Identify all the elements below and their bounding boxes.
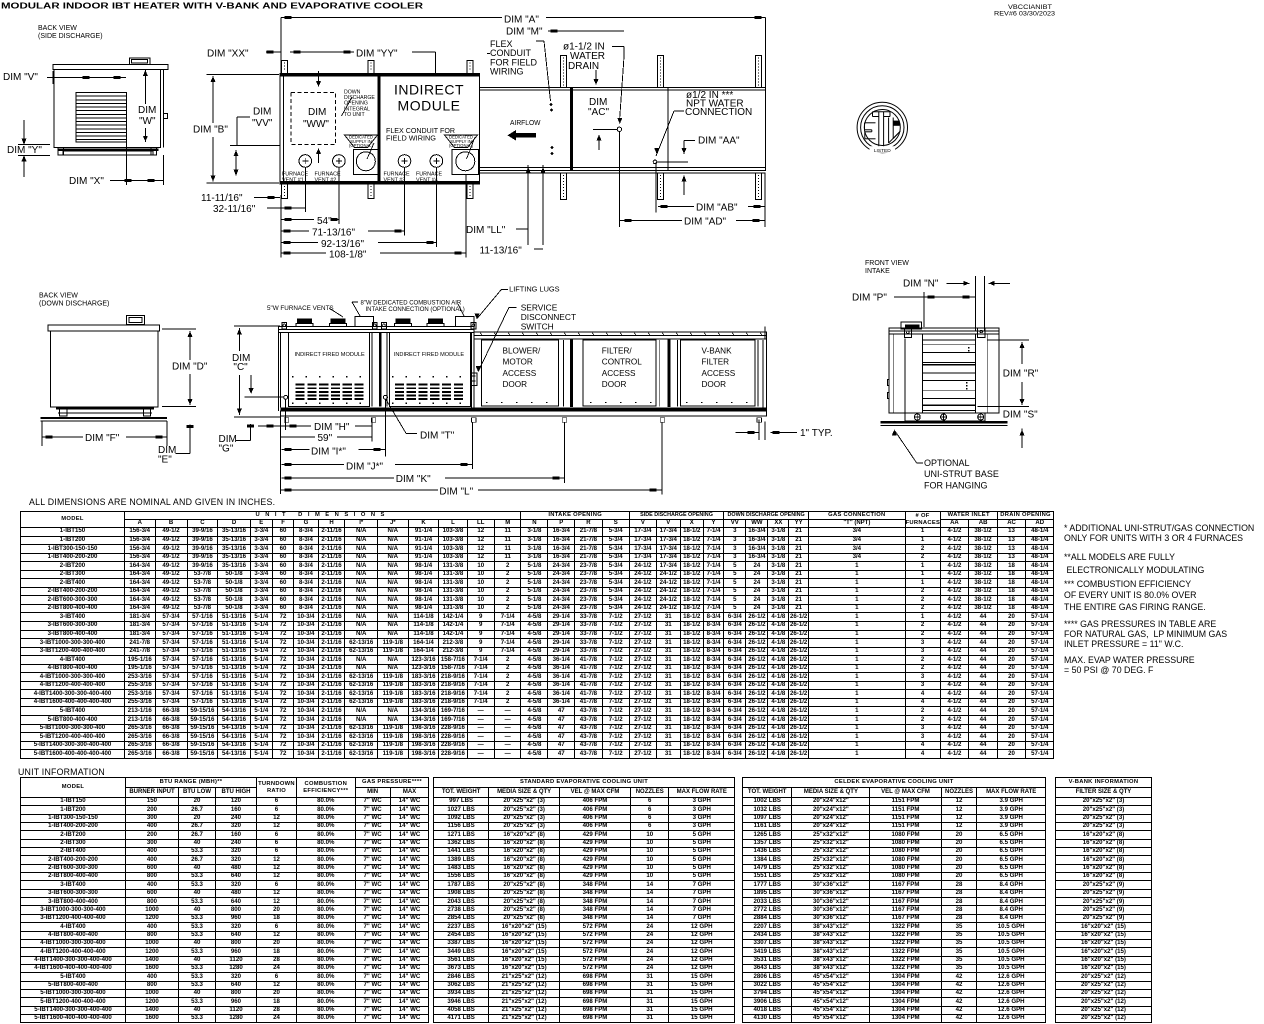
D4 module outer walls <box>277 327 279 411</box>
D4 right sections dots <box>486 402 487 403</box>
svg-text:DIM "F": DIM "F" <box>85 433 120 444</box>
svg-text:INDIRECT FIRED MODULE: INDIRECT FIRED MODULE <box>295 352 365 358</box>
svg-text:SWITCH: SWITCH <box>521 322 554 332</box>
note: all dimensions nominal <box>29 497 275 507</box>
svg-text:"E": "E" <box>158 455 172 466</box>
svg-text:BLOWER/: BLOWER/ <box>503 347 541 356</box>
svg-text:"C": "C" <box>233 362 248 373</box>
svg-text:DIM "M": DIM "M" <box>506 27 543 38</box>
D4 bolts at base left <box>284 395 288 399</box>
D5 cabinet outline <box>889 334 999 413</box>
svg-text:INDIRECT FIRED MODULE: INDIRECT FIRED MODULE <box>394 352 464 358</box>
svg-text:DIM "X": DIM "X" <box>69 176 104 187</box>
D1 cabinet body <box>54 69 161 147</box>
notes right of unit dimensions table <box>1064 524 1254 544</box>
svg-text:DRAIN: DRAIN <box>568 61 599 72</box>
svg-text:DISCONNECT: DISCONNECT <box>521 312 576 322</box>
D2 supply squares with circles <box>353 150 378 175</box>
svg-text:VENT #4: VENT #4 <box>416 177 438 183</box>
D3 roof band <box>48 325 159 331</box>
D5 filter stack <box>923 340 976 411</box>
unit information title <box>18 767 105 777</box>
D1 roof band <box>53 65 168 70</box>
svg-text:DIM: DIM <box>138 105 156 116</box>
svg-text:DIM "B": DIM "B" <box>193 125 228 136</box>
svg-text:BACK VIEW: BACK VIEW <box>39 293 78 300</box>
D2 right sections outline <box>479 87 765 170</box>
svg-text:FRONT VIEW: FRONT VIEW <box>865 260 909 267</box>
D4 module 1 door <box>289 333 370 407</box>
svg-text:DIM "N": DIM "N" <box>903 279 939 290</box>
D5 uni-strut base plate <box>880 421 1007 423</box>
D4 combustion air intake boxes <box>355 317 374 327</box>
svg-text:8"W DEDICATED COMBUSTION AIR: 8"W DEDICATED COMBUSTION AIR <box>361 301 462 307</box>
svg-text:59": 59" <box>318 433 333 444</box>
svg-text:DIM "A": DIM "A" <box>504 15 539 26</box>
svg-text:V-BANK: V-BANK <box>702 347 733 356</box>
svg-text:ACCESS: ACCESS <box>602 369 636 378</box>
svg-text:DIM "S": DIM "S" <box>1003 410 1038 421</box>
svg-text:FIELD WIRING: FIELD WIRING <box>386 134 436 143</box>
svg-text:WIRING: WIRING <box>490 67 524 77</box>
unit information tables <box>20 777 429 1023</box>
svg-text:ACCESS: ACCESS <box>503 369 537 378</box>
svg-text:11-11/16": 11-11/16" <box>201 193 243 204</box>
svg-text:54": 54" <box>317 216 332 227</box>
D5 roof band <box>889 328 999 334</box>
svg-text:BACK VIEW: BACK VIEW <box>38 25 77 32</box>
D4 bottom bar and base <box>281 407 767 411</box>
svg-text:DIM "I*": DIM "I*" <box>311 447 346 458</box>
svg-text:REV#6 03/30/2023: REV#6 03/30/2023 <box>994 12 1056 18</box>
svg-text:"VV": "VV" <box>252 118 273 129</box>
svg-text:"AC": "AC" <box>588 107 609 118</box>
D2 unistrut channels top <box>282 60 288 73</box>
svg-text:DIM "D": DIM "D" <box>172 362 208 373</box>
svg-text:DIM "XX": DIM "XX" <box>207 49 249 60</box>
D2 unistrut channels bottom <box>282 184 288 199</box>
svg-text:DIM "AA": DIM "AA" <box>698 136 740 147</box>
svg-text:DIM: DIM <box>308 107 326 118</box>
D1 vent on roof <box>129 58 150 64</box>
svg-text:DIM "YY": DIM "YY" <box>356 49 398 60</box>
svg-text:"WW": "WW" <box>303 119 329 130</box>
svg-text:UNI-STRUT BASE: UNI-STRUT BASE <box>924 469 999 479</box>
D2 down discharge dashed opening <box>291 93 336 145</box>
D4 dim C inner stub to bolt line <box>250 375 252 392</box>
D4 roof vents <box>297 319 312 324</box>
svg-text:INTAKE: INTAKE <box>865 268 890 275</box>
svg-text:"G": "G" <box>219 444 234 455</box>
svg-text:INDIRECT: INDIRECT <box>394 82 464 98</box>
D4 right sections roof band <box>474 332 766 339</box>
svg-text:DIM "Y": DIM "Y" <box>7 145 42 156</box>
svg-text:DIM "T": DIM "T" <box>420 431 455 442</box>
svg-text:71-13/16": 71-13/16" <box>312 228 355 239</box>
svg-text:(OPTIONAL): (OPTIONAL) <box>449 143 474 148</box>
D4 v-bank section <box>681 340 756 406</box>
D4 blower section <box>482 340 559 406</box>
D5 corner lugs <box>904 329 911 337</box>
svg-text:32-11/16": 32-11/16" <box>213 204 256 215</box>
D5 feet band <box>905 413 985 421</box>
svg-text:OPTIONAL: OPTIONAL <box>924 458 970 468</box>
svg-text:92-13/16": 92-13/16" <box>321 239 364 250</box>
svg-text:VBCCIANIBT: VBCCIANIBT <box>1008 5 1052 11</box>
D4 dot rows <box>292 376 293 377</box>
svg-text:DIM "L": DIM "L" <box>439 487 473 498</box>
svg-text:CONTROL: CONTROL <box>602 358 642 367</box>
svg-text:5"W FURNACE VENTS: 5"W FURNACE VENTS <box>267 305 334 312</box>
svg-text:"W": "W" <box>139 116 156 127</box>
svg-text:CONNECTION: CONNECTION <box>685 107 752 118</box>
svg-text:DIM "R": DIM "R" <box>1003 369 1039 380</box>
svg-text:DIM "LL": DIM "LL" <box>466 225 506 236</box>
D5 door columns <box>904 339 906 413</box>
svg-text:TO UNIT: TO UNIT <box>344 112 365 118</box>
svg-text:MODULE: MODULE <box>398 98 461 114</box>
svg-text:LIFTING LUGS: LIFTING LUGS <box>509 285 560 294</box>
D2 furnace vent circles <box>299 155 312 168</box>
svg-text:(OPTIONAL): (OPTIONAL) <box>349 143 374 148</box>
D4 module 2 door <box>390 333 471 407</box>
svg-text:MOTOR: MOTOR <box>503 358 533 367</box>
D3 roof vent <box>127 316 145 325</box>
svg-text:DIM "AB": DIM "AB" <box>696 203 738 214</box>
D3 base <box>56 407 154 410</box>
D2 module block outline <box>280 74 479 184</box>
svg-text:LISTED: LISTED <box>874 148 891 154</box>
svg-text:DIM "P": DIM "P" <box>852 293 887 304</box>
svg-text:VENT #3: VENT #3 <box>384 177 406 183</box>
svg-text:FILTER: FILTER <box>702 358 730 367</box>
D3 unistrut platform <box>41 417 168 419</box>
svg-text:FOR HANGING: FOR HANGING <box>924 480 988 490</box>
svg-text:DIM: DIM <box>253 107 271 118</box>
svg-text:DIM "J*": DIM "J*" <box>346 462 384 473</box>
svg-text:108-1/8": 108-1/8" <box>329 250 367 261</box>
D4 louvers module 1 and 2 <box>296 384 305 386</box>
D2 vertical arrows at down-discharge opening <box>318 71 320 86</box>
svg-text:VENT #2: VENT #2 <box>315 177 337 183</box>
svg-text:DIM "V": DIM "V" <box>3 72 38 83</box>
D1 base <box>58 149 159 152</box>
svg-text:DIM "AD": DIM "AD" <box>684 216 727 227</box>
D4 disconnect switch box <box>471 373 478 385</box>
D2 dedicated supply funnels <box>367 143 374 159</box>
svg-text:DOOR: DOOR <box>702 380 727 389</box>
svg-text:FILTER/: FILTER/ <box>602 347 633 356</box>
svg-text:DIM "H": DIM "H" <box>314 422 350 433</box>
svg-text:VENT #1: VENT #1 <box>282 177 304 183</box>
svg-text:MODULAR INDOOR IBT HEATER WITH: MODULAR INDOOR IBT HEATER WITH V-BANK AN… <box>1 1 424 11</box>
ETL listed mark <box>857 102 907 154</box>
svg-text:(SIDE DISCHARGE): (SIDE DISCHARGE) <box>38 33 103 40</box>
svg-text:SERVICE: SERVICE <box>521 302 558 312</box>
D1 grille <box>76 93 126 142</box>
D5 top cap <box>901 322 921 329</box>
D4 module roof band <box>278 327 474 333</box>
svg-text:(DOWN DISCHARGE): (DOWN DISCHARGE) <box>39 301 109 308</box>
D3 cabinet <box>51 331 158 407</box>
svg-text:AIRFLOW: AIRFLOW <box>510 120 541 127</box>
svg-text:ACCESS: ACCESS <box>702 369 736 378</box>
svg-text:1" TYP.: 1" TYP. <box>800 428 833 439</box>
svg-text:DOOR: DOOR <box>503 380 528 389</box>
D4 filter section <box>583 340 656 406</box>
D4 lifting lug pins <box>282 323 287 330</box>
svg-text:INTAKE CONNECTION (OPTIONAL): INTAKE CONNECTION (OPTIONAL) <box>366 307 465 313</box>
svg-text:DIM "K": DIM "K" <box>396 474 431 485</box>
svg-text:DOOR: DOOR <box>602 380 627 389</box>
svg-text:11-13/16": 11-13/16" <box>480 246 523 257</box>
unit dimensions table <box>20 511 1054 759</box>
D5 left service column <box>893 334 895 413</box>
